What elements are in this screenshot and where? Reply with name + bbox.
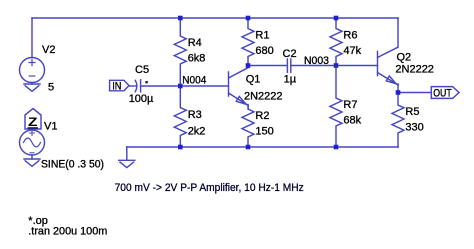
port flag OUT: [431, 87, 459, 99]
svg-text:R1: R1: [255, 30, 269, 42]
svg-text:N003: N003: [304, 55, 329, 67]
svg-text:V1: V1: [44, 121, 57, 133]
svg-text:IN: IN: [112, 80, 121, 92]
ground below V2: [24, 84, 40, 91]
svg-text:5: 5: [48, 82, 54, 94]
wire V1 bottom lead: [31, 155, 33, 159]
svg-text:R4: R4: [188, 37, 202, 49]
svg-text:SINE(0 .3 50): SINE(0 .3 50): [41, 159, 104, 171]
resistor R4: [174, 18, 186, 86]
port flag Z above V1: [25, 109, 41, 130]
capacitor C5: [135, 80, 137, 91]
ground below V1: [24, 159, 40, 166]
wire emitter node to OUT: [398, 92, 431, 94]
wire bottom rail: [127, 146, 398, 148]
svg-text:330: 330: [405, 122, 423, 134]
svg-text:R7: R7: [343, 99, 357, 111]
resistor R1: [242, 18, 254, 66]
resistor R5: [392, 93, 404, 148]
capacitor C2: [287, 59, 290, 72]
svg-text:V2: V2: [42, 44, 55, 56]
svg-text:R5: R5: [405, 106, 419, 118]
svg-text:680: 680: [255, 45, 273, 57]
svg-text:C5: C5: [135, 64, 149, 76]
svg-text:1µ: 1µ: [284, 74, 297, 86]
resistor R6: [330, 18, 342, 66]
svg-text:N004: N004: [182, 74, 206, 86]
svg-text:47k: 47k: [343, 45, 361, 57]
svg-text:2N2222: 2N2222: [244, 91, 283, 103]
svg-text:.tran 200u 100m: .tran 200u 100m: [28, 225, 107, 237]
wire N004 to Q1 base: [180, 85, 228, 87]
resistor R3: [174, 86, 186, 147]
svg-text:R2: R2: [255, 110, 269, 122]
svg-text:700 mV -> 2V P-P Amplifier, 10: 700 mV -> 2V P-P Amplifier, 10 Hz-1 MHz: [115, 182, 304, 194]
wire top rail: [32, 17, 398, 19]
svg-text:OUT: OUT: [433, 88, 452, 100]
wire rail to left ground: [126, 147, 128, 160]
wire IN to C5: [129, 85, 136, 87]
svg-text:2N2222: 2N2222: [395, 64, 434, 76]
voltage source V2: [20, 58, 45, 83]
wire Q2 emitter to node: [397, 84, 399, 93]
svg-text:Q2: Q2: [397, 52, 412, 64]
svg-text:R3: R3: [188, 109, 202, 121]
svg-text:Z: Z: [28, 115, 38, 129]
polarity dot of C5: [145, 81, 147, 83]
wire C2 to N003: [291, 65, 336, 67]
wire collector node to C2: [248, 65, 287, 67]
svg-text:6k8: 6k8: [188, 53, 206, 65]
svg-text:150: 150: [255, 126, 273, 138]
transistor Q2: [378, 18, 399, 85]
svg-text:2k2: 2k2: [188, 125, 206, 137]
wire V2 top lead: [31, 18, 33, 58]
ground at bottom rail: [119, 160, 135, 167]
svg-text:100µ: 100µ: [129, 93, 154, 105]
wire V1 source sine symbol: [20, 130, 45, 155]
svg-text:R6: R6: [343, 30, 357, 42]
port flag IN: [110, 80, 129, 91]
wire C5 to N004: [141, 85, 181, 87]
svg-text:C2: C2: [283, 48, 297, 60]
svg-text:Q1: Q1: [246, 74, 261, 86]
wire N003 to Q2 base: [336, 65, 378, 67]
Z glyph in flag: [28, 115, 39, 129]
resistor R7: [330, 66, 342, 148]
resistor R2: [242, 105, 254, 148]
transistor Q1: [229, 66, 249, 110]
svg-text:68k: 68k: [343, 115, 361, 127]
wire V2 bottom lead: [31, 83, 33, 85]
